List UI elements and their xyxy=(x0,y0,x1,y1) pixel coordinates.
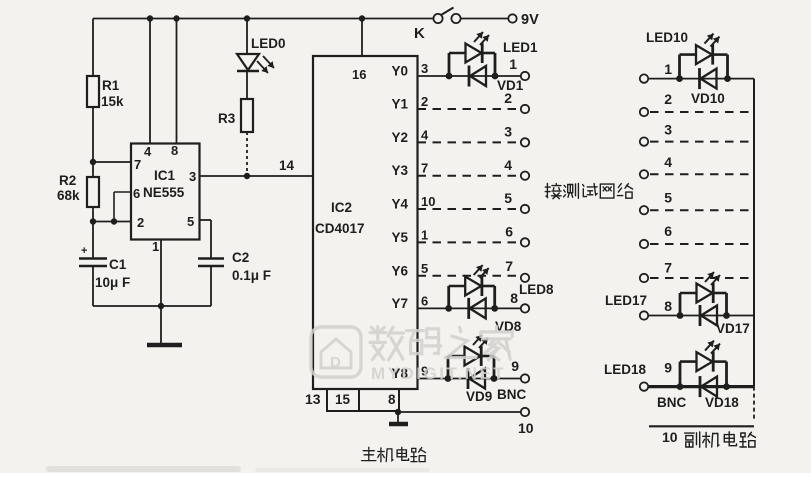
svg-text:NE555: NE555 xyxy=(143,185,185,200)
svg-text:LED1: LED1 xyxy=(503,40,538,55)
svg-text:5: 5 xyxy=(421,261,428,276)
svg-text:VD10: VD10 xyxy=(691,91,725,106)
svg-text:1: 1 xyxy=(152,239,159,254)
svg-text:8: 8 xyxy=(664,298,672,314)
svg-text:9: 9 xyxy=(664,360,672,376)
svg-text:K: K xyxy=(414,25,425,42)
svg-text:6: 6 xyxy=(133,186,140,201)
svg-text:6: 6 xyxy=(505,224,513,240)
svg-text:Y7: Y7 xyxy=(391,296,408,311)
svg-text:8: 8 xyxy=(510,290,518,306)
svg-text:LED8: LED8 xyxy=(519,282,554,297)
svg-text:5: 5 xyxy=(504,190,512,206)
svg-text:8: 8 xyxy=(171,143,178,158)
svg-text:15k: 15k xyxy=(101,94,124,109)
svg-text:1: 1 xyxy=(509,56,517,72)
svg-text:3: 3 xyxy=(421,61,428,76)
svg-text:LED10: LED10 xyxy=(646,30,688,45)
svg-text:BNC: BNC xyxy=(657,395,686,410)
svg-text:MYDIGIT.NET: MYDIGIT.NET xyxy=(371,364,506,383)
svg-text:9V: 9V xyxy=(521,12,539,28)
svg-text:10: 10 xyxy=(518,420,534,436)
svg-text:2: 2 xyxy=(137,215,144,230)
svg-text:CD4017: CD4017 xyxy=(315,221,365,236)
svg-text:Y2: Y2 xyxy=(391,130,408,145)
svg-text:7: 7 xyxy=(421,161,428,176)
svg-text:9: 9 xyxy=(511,358,519,374)
svg-text:IC2: IC2 xyxy=(331,200,352,215)
svg-text:7: 7 xyxy=(505,258,513,274)
svg-text:1: 1 xyxy=(421,227,428,242)
svg-text:5: 5 xyxy=(664,190,672,206)
svg-text:D: D xyxy=(330,354,341,371)
svg-text:VD1: VD1 xyxy=(497,78,524,93)
svg-text:BNC: BNC xyxy=(497,387,526,402)
svg-text:3: 3 xyxy=(664,122,672,138)
svg-text:6: 6 xyxy=(421,293,428,308)
svg-text:14: 14 xyxy=(279,158,295,173)
svg-text:2: 2 xyxy=(421,94,428,109)
svg-text:R3: R3 xyxy=(218,111,236,126)
svg-text:Y6: Y6 xyxy=(391,263,408,278)
svg-text:1: 1 xyxy=(664,61,672,77)
svg-text:68k: 68k xyxy=(57,188,80,203)
svg-text:10μ F: 10μ F xyxy=(95,275,130,290)
svg-text:VD18: VD18 xyxy=(705,395,739,410)
svg-text:4: 4 xyxy=(504,157,512,173)
svg-text:R1: R1 xyxy=(102,78,120,93)
svg-text:10: 10 xyxy=(662,429,678,445)
svg-text:IC1: IC1 xyxy=(154,168,176,183)
svg-text:4: 4 xyxy=(144,144,152,159)
svg-text:R2: R2 xyxy=(59,173,76,188)
svg-text:10: 10 xyxy=(421,194,435,209)
svg-text:VD17: VD17 xyxy=(716,321,750,336)
svg-text:0.1μ F: 0.1μ F xyxy=(232,268,271,283)
svg-text:7: 7 xyxy=(134,157,141,172)
svg-text:3: 3 xyxy=(504,124,512,140)
svg-text:C1: C1 xyxy=(109,257,127,272)
svg-text:LED17: LED17 xyxy=(605,293,647,308)
svg-text:16: 16 xyxy=(352,67,366,82)
svg-text:Y3: Y3 xyxy=(391,163,408,178)
svg-text:3: 3 xyxy=(189,169,196,184)
svg-text:5: 5 xyxy=(187,214,194,229)
svg-text:4: 4 xyxy=(664,154,672,170)
svg-text:4: 4 xyxy=(421,127,429,142)
svg-text:Y4: Y4 xyxy=(391,197,408,212)
svg-text:6: 6 xyxy=(664,223,672,239)
svg-text:C2: C2 xyxy=(232,250,249,265)
svg-text:VD9: VD9 xyxy=(466,389,492,404)
svg-text:2: 2 xyxy=(664,91,672,107)
svg-text:Y0: Y0 xyxy=(391,64,408,79)
svg-text:13: 13 xyxy=(305,391,321,407)
svg-text:Y5: Y5 xyxy=(391,230,408,245)
svg-text:15: 15 xyxy=(335,392,351,407)
svg-text:+: + xyxy=(81,245,87,257)
svg-text:LED18: LED18 xyxy=(604,362,647,377)
svg-text:7: 7 xyxy=(664,260,672,276)
svg-text:Y1: Y1 xyxy=(391,97,408,112)
svg-text:8: 8 xyxy=(388,392,396,407)
svg-text:LED0: LED0 xyxy=(251,36,286,51)
